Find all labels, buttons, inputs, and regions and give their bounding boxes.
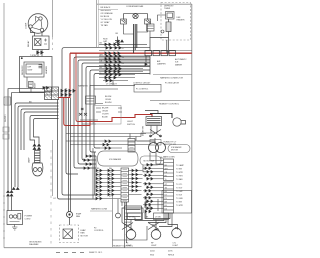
svg-text:OR ORANGE: OR ORANGE	[101, 12, 114, 15]
bowties evap lower right	[43, 87, 49, 90]
wire relay to evap box 2	[41, 50, 43, 57]
light switch box	[93, 106, 121, 125]
svg-text:GROUNDING: GROUNDING	[29, 242, 42, 244]
svg-text:POWER: POWER	[25, 216, 33, 218]
svg-text:BI-MT: BI-MT	[35, 82, 37, 88]
svg-text:BU-WH: BU-WH	[105, 102, 112, 104]
wire compressor S to relay	[31, 28, 35, 36]
motor label pill	[168, 145, 190, 153]
wires above ice maker	[66, 141, 155, 148]
svg-text:MAKER: MAKER	[175, 63, 183, 66]
small motor circle	[116, 213, 121, 218]
fan inner box	[63, 229, 73, 239]
lamp socket circle 2	[38, 168, 42, 172]
svg-text:T-STAT: T-STAT	[30, 54, 37, 57]
panel divider middle dashed	[50, 150, 52, 247]
left border ticks	[3, 196, 5, 238]
svg-text:BU BLUE: BU BLUE	[101, 16, 110, 18]
tiny box on left border 1	[3, 127, 9, 132]
ladder wire 11	[103, 80, 128, 82]
bends from X down	[130, 130, 157, 141]
bottom connector field rows	[96, 169, 114, 199]
page fold double line	[96, 0, 98, 47]
center label column	[105, 96, 112, 104]
wires to plug	[8, 197, 12, 211]
svg-text:DEFROST: DEFROST	[22, 65, 24, 75]
svg-text:SUPPLY: SUPPLY	[5, 114, 7, 122]
connector bowties below relay	[37, 51, 43, 54]
lamp socket outline	[32, 163, 43, 176]
fan bundle joins	[124, 24, 148, 34]
lamp 1 nub	[130, 228, 133, 230]
water valve box	[125, 206, 142, 220]
fan plug connector left	[121, 19, 127, 24]
wire to door switch 2	[70, 136, 141, 138]
center vertical bus wire A	[62, 48, 100, 195]
harness connector grid	[45, 87, 59, 100]
timer wires	[150, 19, 169, 53]
wire relay to evap box	[37, 50, 39, 57]
bus wire G	[94, 74, 150, 149]
wire bend bus to lower left	[8, 89, 59, 190]
svg-text:TO FAN: TO FAN	[176, 178, 183, 181]
small pill right	[140, 156, 161, 165]
svg-text:TO VLV: TO VLV	[176, 187, 183, 189]
power plug box	[7, 211, 23, 225]
panel divider lower solid	[52, 140, 54, 196]
svg-text:MOTOR: MOTOR	[171, 150, 179, 152]
lamp 3	[172, 228, 182, 238]
defrost heater inner box	[26, 64, 42, 74]
svg-text:WH: WH	[28, 87, 32, 89]
door switch legs	[151, 126, 157, 131]
terminal strip top	[128, 139, 135, 153]
air damper label	[157, 60, 166, 66]
fc indicator box	[134, 84, 161, 92]
lamp 2	[151, 230, 161, 240]
bowtie cluster on bus	[61, 90, 75, 97]
ladder connector column	[105, 43, 121, 82]
strip right text column	[176, 164, 185, 207]
lamp assembly connectors	[33, 144, 40, 150]
bowties left of right strip	[145, 164, 153, 213]
svg-text:RUN: RUN	[103, 39, 108, 41]
svg-text:BK-WH: BK-WH	[102, 108, 109, 110]
compressor terminal S	[29, 25, 32, 28]
compressor internal wires	[32, 17, 42, 30]
svg-text:OR-BK: OR-BK	[102, 111, 109, 113]
evaporator compartment box	[20, 57, 53, 93]
fan motor symbol	[133, 13, 138, 18]
bends pill to strip	[143, 153, 164, 172]
capacitor label	[103, 39, 108, 44]
svg-text:YL YELLOW: YL YELLOW	[101, 19, 112, 21]
connector arrows below fan	[117, 40, 124, 42]
wire heater down	[26, 77, 28, 88]
svg-text:LT SW: LT SW	[129, 217, 135, 219]
svg-text:LIGHT: LIGHT	[173, 245, 179, 247]
svg-text:600W: 600W	[28, 70, 33, 72]
knot labels	[146, 217, 156, 227]
svg-text:ICE MAKER: ICE MAKER	[109, 158, 121, 161]
svg-text:WATER: WATER	[124, 221, 132, 224]
ladder wire 4	[99, 58, 150, 60]
svg-text:TO LAMP: TO LAMP	[176, 164, 185, 167]
bowtie on right vertical	[145, 63, 147, 66]
svg-text:HUMIDITY CT: HUMIDITY CT	[164, 142, 178, 144]
svg-text:VT: VT	[109, 196, 111, 198]
svg-text:GY GRAY: GY GRAY	[101, 21, 111, 24]
thermostat component in box	[29, 82, 34, 88]
bus wire D	[82, 63, 150, 160]
door switch box	[146, 117, 162, 126]
field bowties right of column	[132, 169, 138, 191]
ice maker rounded outline	[98, 151, 139, 166]
motor label	[171, 146, 182, 152]
svg-text:YL: YL	[165, 179, 167, 181]
valve wires	[118, 199, 126, 213]
ice maker motor circles	[149, 143, 166, 153]
humidity top line	[150, 100, 190, 102]
knot verticals	[146, 196, 158, 219]
overload mark	[44, 39, 47, 45]
connector marks above icemaker	[103, 140, 111, 149]
svg-text:DIAGRAM: DIAGRAM	[29, 243, 39, 246]
right footer text	[150, 251, 175, 257]
svg-text:HEATER: HEATER	[45, 65, 48, 74]
wire fan to dashed box	[69, 218, 71, 226]
wires fanning to lamps	[122, 202, 178, 230]
strip cell dashes	[123, 141, 134, 201]
svg-text:ICE MAKER: ICE MAKER	[171, 146, 182, 149]
switch X 2	[148, 223, 159, 230]
svg-text:BK BLACK: BK BLACK	[101, 6, 111, 9]
wires down to evap fan	[69, 98, 71, 212]
svg-text:FC INDICATOR: FC INDICATOR	[165, 82, 180, 85]
ladder wire 3	[99, 55, 150, 57]
svg-text:TN TAN: TN TAN	[101, 24, 109, 27]
svg-text:HUMIDITY CONTROL: HUMIDITY CONTROL	[159, 104, 180, 106]
bend-to-field connectors	[93, 148, 96, 199]
svg-text:WH WHITE: WH WHITE	[101, 10, 112, 12]
wires down beside divider	[125, 202, 127, 248]
svg-text:HARNESS CONNECTOR: HARNESS CONNECTOR	[160, 77, 184, 80]
svg-text:AUTOMATIC: AUTOMATIC	[175, 58, 187, 61]
ladder wire 1	[100, 47, 150, 49]
page top border right half	[97, 3, 192, 5]
right terminal strip lower	[164, 182, 174, 213]
svg-text:CONTROL: CONTROL	[94, 230, 105, 232]
compressor motor circle	[28, 14, 48, 34]
plug prong circle 1	[9, 215, 12, 218]
underline	[90, 210, 112, 212]
lamp labels	[126, 243, 179, 248]
bus wire H	[66, 88, 78, 174]
bus connector rect 2	[153, 51, 160, 56]
svg-text:SHEET 1 OF 1: SHEET 1 OF 1	[89, 252, 103, 254]
svg-text:BU-BK: BU-BK	[102, 117, 109, 119]
ground symbol under plug	[12, 225, 17, 231]
svg-text:TO SW: TO SW	[176, 201, 182, 203]
compressor terminal C	[40, 28, 43, 31]
short wires in box	[96, 108, 122, 112]
resistor hatch	[166, 24, 171, 30]
ladder wire 7	[99, 68, 143, 70]
svg-text:LT CIRCUIT: LT CIRCUIT	[106, 83, 118, 85]
ladder wire 8	[99, 71, 143, 73]
svg-text:FAN: FAN	[81, 232, 85, 235]
defrost heater outer box	[24, 62, 44, 77]
bus wire C	[78, 60, 150, 164]
fan box label	[81, 229, 89, 237]
compressor terminal M	[39, 17, 42, 20]
bimetal component	[147, 21, 155, 38]
wire 1	[8, 89, 45, 190]
defrost heater label	[177, 17, 186, 22]
svg-text:GY-WH: GY-WH	[102, 114, 109, 116]
svg-text:HARN CONN: HARN CONN	[163, 156, 175, 159]
page right border	[191, 4, 193, 248]
bus wire from grid	[58, 100, 97, 200]
evap fan dashed box	[60, 225, 79, 243]
arrow symbols mid bus	[79, 108, 87, 116]
run capacitor	[115, 37, 120, 47]
small label box 2	[154, 213, 169, 220]
small label box 1	[128, 213, 143, 220]
right terminal strip upper	[164, 159, 174, 181]
long vertical divider	[112, 196, 114, 247]
svg-text:HARNESS: HARNESS	[78, 85, 88, 88]
page left border	[3, 3, 5, 248]
lamp 3 nub	[175, 227, 178, 229]
strip cell texts	[165, 165, 169, 211]
svg-text:BK-WH: BK-WH	[105, 96, 112, 98]
bus connector rect 4	[169, 51, 176, 56]
svg-text:HUMIDITY CONTROL: HUMIDITY CONTROL	[113, 245, 134, 247]
wires into right strip	[143, 165, 164, 209]
motor wire top	[154, 138, 156, 144]
wire heater down 2	[30, 88, 32, 93]
dash row below border	[56, 252, 84, 254]
tiny labels in field	[97, 168, 113, 198]
ladder wire 6	[99, 65, 150, 67]
relay overload box	[33, 36, 50, 50]
left margin component	[4, 97, 11, 105]
L wire bottom	[113, 226, 148, 240]
bulb lamp	[173, 118, 186, 126]
svg-text:RELAY: RELAY	[27, 40, 30, 47]
svg-text:DOOR SW: DOOR SW	[143, 126, 145, 136]
plug inner mark	[10, 221, 20, 223]
second wire y89	[94, 88, 118, 90]
bus connector rect 1	[145, 51, 152, 56]
svg-text:TO MTR: TO MTR	[176, 205, 184, 207]
ice maker label	[175, 58, 187, 66]
bus wire F	[90, 70, 150, 152]
defrost timer label	[164, 6, 174, 11]
light switch pointer label	[127, 121, 135, 126]
wire to lamp 1	[30, 116, 59, 144]
bus wire B	[74, 57, 150, 168]
svg-text:FC CONTROL: FC CONTROL	[136, 89, 148, 91]
svg-text:REV A: REV A	[168, 254, 175, 257]
bottom strip column	[121, 168, 129, 202]
legend text column	[101, 6, 114, 27]
svg-text:LIGHT: LIGHT	[127, 121, 134, 123]
lamp 2 nub	[155, 228, 158, 230]
red wire branch down left	[64, 98, 152, 126]
wire to lamp 2	[34, 119, 59, 144]
plug connectors lower left	[7, 191, 13, 197]
wire 3	[15, 103, 59, 187]
light switch label rows	[102, 108, 109, 119]
svg-text:HARNESS CONN: HARNESS CONN	[91, 208, 108, 211]
svg-text:OR-BK: OR-BK	[105, 99, 112, 101]
svg-text:SWITCH: SWITCH	[127, 124, 135, 126]
lamp socket circle 1	[33, 168, 37, 172]
svg-text:YL: YL	[100, 73, 102, 75]
humidity small box	[150, 140, 161, 146]
water valve label	[124, 221, 132, 227]
svg-text:EVAP: EVAP	[81, 229, 87, 232]
fan bundle wires	[134, 24, 137, 53]
wire 2	[12, 93, 45, 190]
right vertical wire	[146, 56, 150, 75]
red wire main horizontal	[70, 52, 192, 54]
wire compressor C to relay	[41, 32, 43, 36]
fz control text	[94, 228, 105, 233]
plug prong circle 2	[14, 215, 17, 218]
small box under corner	[86, 96, 96, 104]
svg-text:TO MTR: TO MTR	[176, 172, 184, 174]
svg-text:DAMPER: DAMPER	[157, 63, 166, 66]
grid hatch	[45, 88, 58, 99]
bowties after bends	[84, 155, 92, 169]
wire bend to motor	[137, 141, 155, 144]
svg-text:EVAP: EVAP	[76, 213, 82, 216]
wire y103.5	[96, 103, 103, 105]
ladder wire 9	[99, 74, 135, 76]
svg-text:TO ICE: TO ICE	[176, 194, 183, 196]
svg-text:DEFROST: DEFROST	[164, 6, 174, 8]
svg-text:LIGHT: LIGHT	[151, 245, 157, 247]
field wires rows	[96, 171, 143, 199]
ladder wire 5	[99, 61, 150, 63]
lamp resistor body	[35, 151, 41, 163]
svg-text:FAN: FAN	[76, 215, 80, 218]
heater connector marks	[39, 65, 43, 68]
svg-text:TO CTL: TO CTL	[176, 184, 182, 186]
ladder wire 10	[99, 77, 135, 79]
svg-text:YL: YL	[97, 184, 99, 186]
svg-text:TIMER: TIMER	[164, 8, 171, 10]
timer heater resistor	[166, 22, 171, 32]
fan label right	[76, 213, 82, 219]
relay element with X	[35, 39, 42, 46]
defrost timer dashed box	[161, 3, 191, 41]
wire 4	[18, 106, 59, 187]
page bottom border	[4, 247, 192, 249]
fan rail wire	[124, 14, 148, 19]
long wire y85	[90, 85, 135, 96]
top-center ladder wire 0	[99, 43, 147, 45]
evap fan motor circle	[67, 212, 73, 218]
wire 6	[24, 112, 59, 150]
switch X symbol	[150, 130, 162, 137]
small end marks wires 3,4	[12, 188, 19, 190]
bus wire E	[86, 67, 150, 157]
svg-text:CAP: CAP	[103, 40, 108, 43]
wire into cluster	[145, 111, 158, 115]
timer contact circle	[161, 30, 164, 33]
humidity label bottom	[164, 142, 178, 147]
svg-text:HEATER: HEATER	[177, 19, 186, 22]
svg-text:MOTOR: MOTOR	[81, 235, 89, 237]
junction dot	[21, 57, 23, 59]
panel divider top	[52, 0, 54, 37]
ladder wire 2	[99, 49, 192, 51]
svg-text:CONDENSER FAN: CONDENSER FAN	[126, 5, 144, 8]
red wire vertical drop 1	[59, 53, 71, 97]
svg-text:TO GRD: TO GRD	[176, 198, 184, 200]
svg-text:COMP: COMP	[26, 22, 28, 29]
thermostat inner mark	[29, 83, 32, 85]
ladder tiny labels	[100, 43, 125, 75]
harness connector underline	[153, 74, 192, 76]
red wire vertical drop 2	[76, 53, 90, 121]
svg-text:CORD: CORD	[25, 218, 31, 220]
timer wire left	[158, 15, 166, 21]
svg-text:AIR: AIR	[157, 60, 161, 63]
timer motor box	[166, 12, 175, 20]
bus connector rect 3	[161, 51, 168, 56]
svg-text:TO HTR: TO HTR	[176, 175, 183, 177]
plug ground slot	[18, 214, 21, 220]
svg-text:CONTROL CIRCUIT: CONTROL CIRCUIT	[133, 82, 151, 84]
vertical below ladder	[112, 81, 114, 86]
switch X 1	[122, 223, 133, 230]
lamp 1	[126, 230, 136, 240]
svg-text:TO LMP: TO LMP	[176, 191, 183, 193]
lower strip border	[162, 191, 192, 214]
svg-text:LAMP: LAMP	[28, 157, 31, 163]
tiny box on left border 2	[3, 134, 9, 139]
wire 5	[21, 109, 59, 150]
fan plug connector right	[145, 19, 151, 24]
fan motor hub	[68, 213, 70, 215]
short black wires near red staircase	[80, 120, 98, 124]
wire to door switch 1	[66, 133, 146, 135]
evap inner text	[28, 67, 33, 72]
thick wire to lamp	[150, 114, 172, 119]
svg-text:TO SW: TO SW	[176, 168, 182, 170]
